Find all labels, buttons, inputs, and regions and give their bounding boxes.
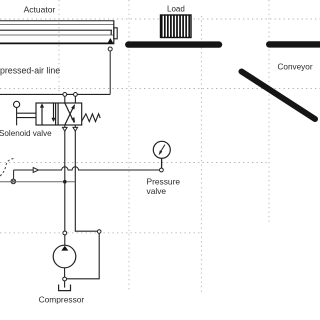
svg-text:Compressed-air line: Compressed-air line xyxy=(0,65,60,75)
svg-text:Solenoid valve: Solenoid valve xyxy=(0,129,52,138)
svg-text:Pressure: Pressure xyxy=(147,176,181,186)
svg-text:Compressor: Compressor xyxy=(39,295,85,305)
svg-text:Actuator: Actuator xyxy=(24,4,56,14)
svg-text:Conveyor: Conveyor xyxy=(278,62,313,71)
svg-text:Load: Load xyxy=(167,4,185,13)
svg-text:valve: valve xyxy=(147,186,167,196)
